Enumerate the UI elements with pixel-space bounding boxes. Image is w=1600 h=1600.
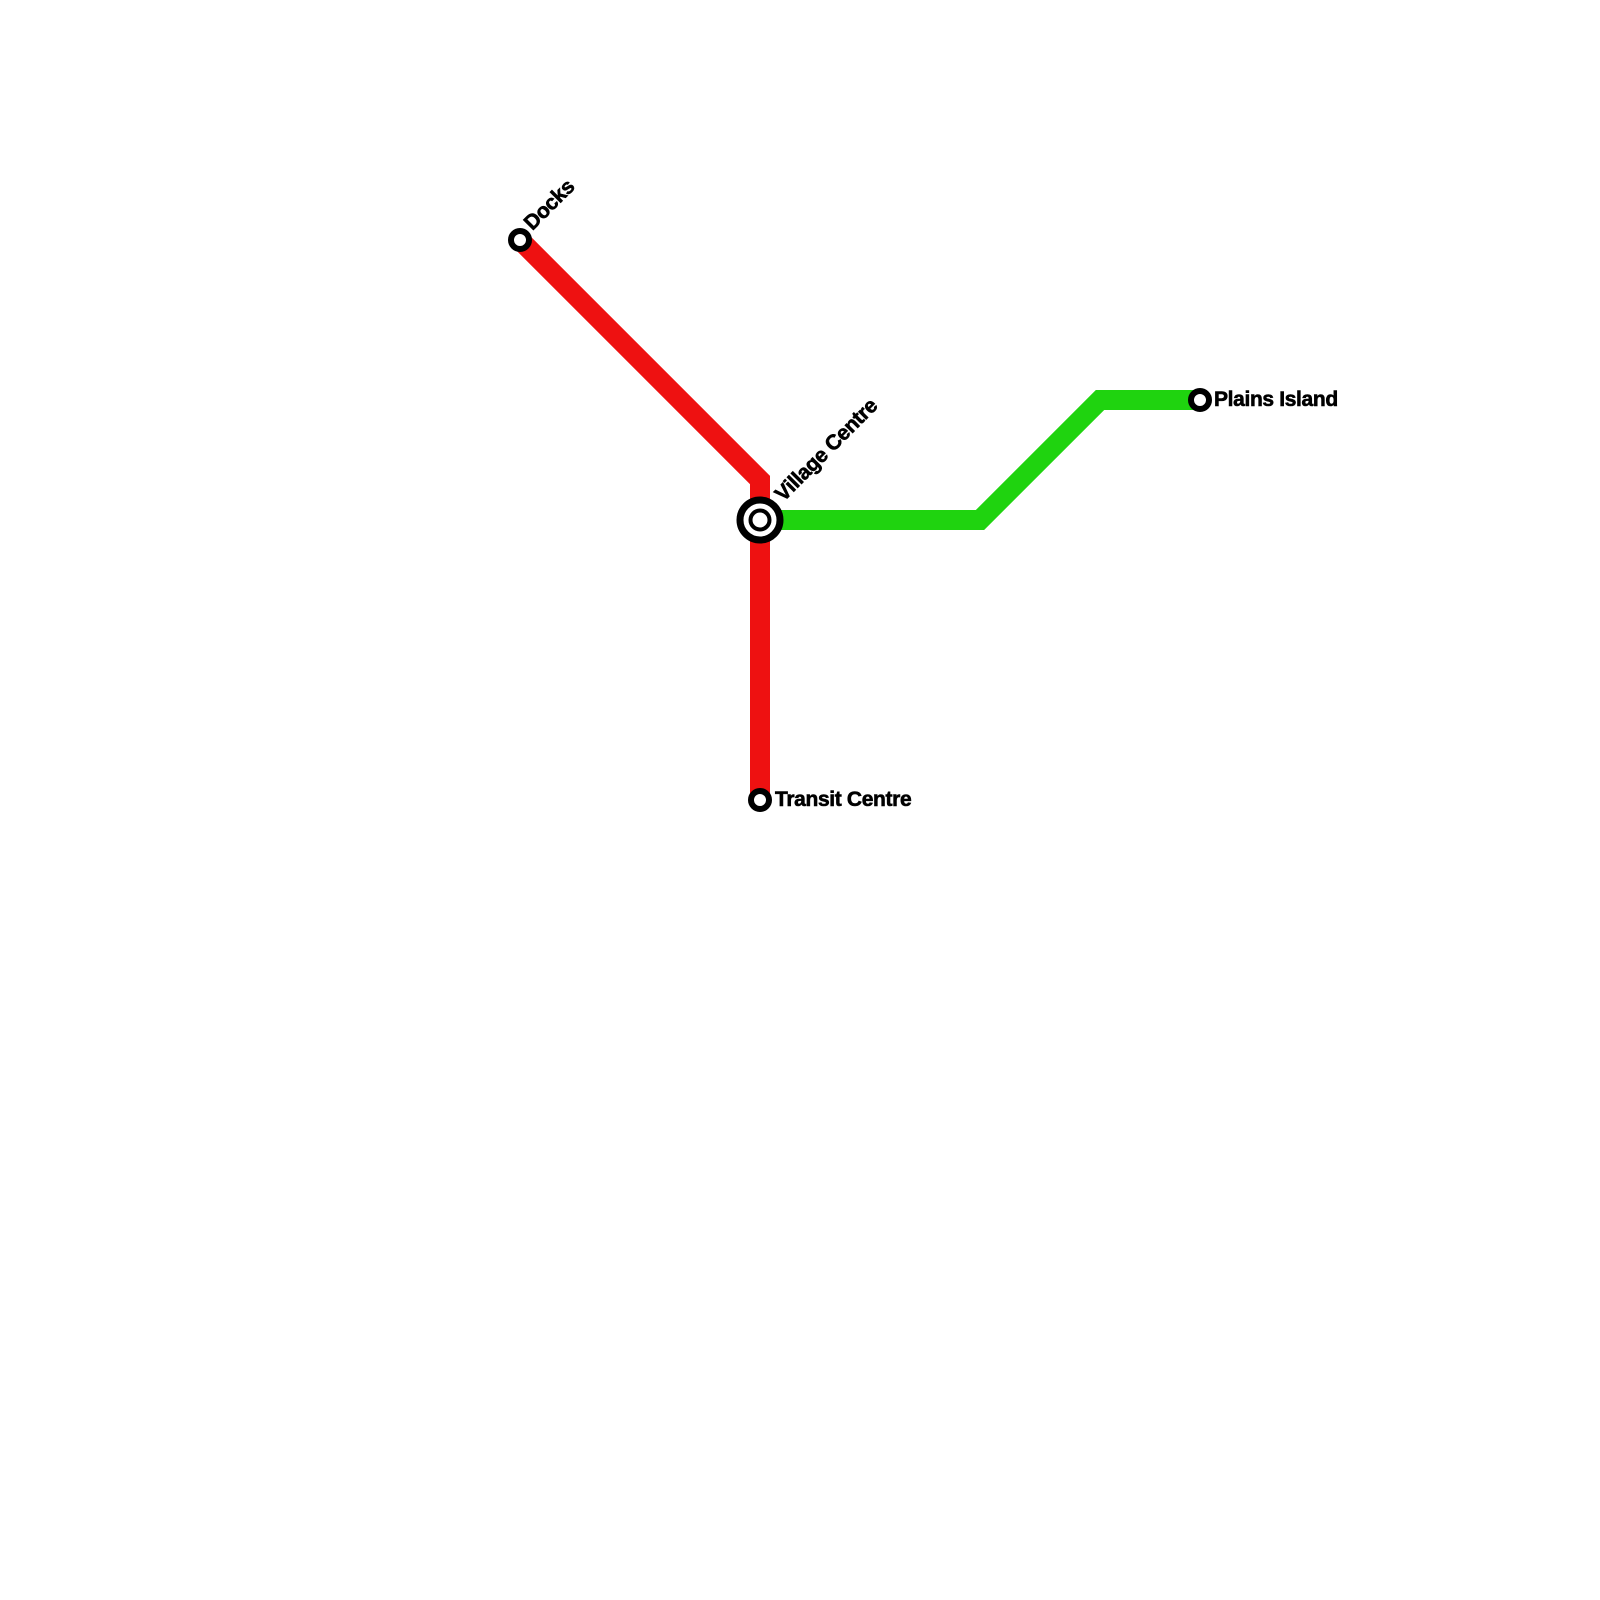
- station Plains Island: [1191, 391, 1209, 409]
- station Transit Centre: [751, 791, 769, 809]
- svg-text:Docks: Docks: [520, 175, 580, 235]
- svg-text:Plains Island: Plains Island: [1214, 388, 1338, 411]
- red line Docks - Village Centre - Transit Centre: [520, 240, 760, 800]
- interchange Village Centre outer ring: [740, 500, 780, 540]
- green line Village Centre - Plains Island: [760, 400, 1200, 520]
- svg-text:Transit Centre: Transit Centre: [775, 788, 911, 811]
- interchange Village Centre inner ring: [751, 511, 770, 530]
- station Docks: [511, 231, 529, 249]
- svg-text:Village Centre: Village Centre: [771, 394, 883, 506]
